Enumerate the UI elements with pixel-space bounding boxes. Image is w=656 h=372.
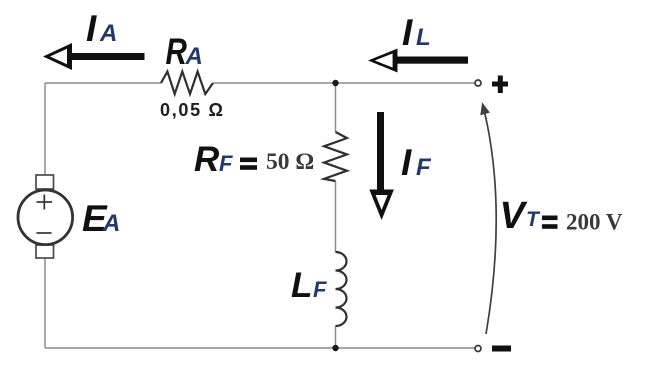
label VT = 200 V bbox=[500, 195, 623, 237]
svg-text:R: R bbox=[194, 140, 220, 179]
terminal minus sign bbox=[492, 346, 511, 352]
arrow IL bbox=[368, 49, 468, 73]
terminal top right bbox=[475, 80, 481, 86]
wire left vertical lower bbox=[44, 258, 46, 348]
svg-text:T: T bbox=[526, 208, 541, 231]
wire left vertical upper bbox=[44, 83, 46, 175]
svg-text:F: F bbox=[313, 277, 327, 302]
resistor RA label bbox=[166, 32, 203, 73]
arrow IA bbox=[43, 43, 145, 70]
svg-text:A: A bbox=[99, 20, 117, 47]
svg-text:I: I bbox=[401, 142, 412, 183]
svg-text:I: I bbox=[86, 8, 97, 49]
svg-text:R: R bbox=[166, 32, 187, 73]
wire middle vertical upper bbox=[335, 83, 337, 132]
node junction bottom bbox=[332, 345, 338, 351]
wire middle vertical lower bbox=[335, 326, 337, 348]
svg-text:L: L bbox=[291, 266, 312, 305]
svg-text:V: V bbox=[500, 195, 528, 237]
label IL bbox=[402, 12, 431, 53]
label IF bbox=[401, 142, 432, 183]
wire top horizontal left of RA bbox=[45, 82, 161, 84]
wire top horizontal right of RA bbox=[213, 82, 475, 84]
svg-text:F: F bbox=[416, 154, 432, 181]
svg-text:L: L bbox=[416, 24, 431, 51]
svg-text:I: I bbox=[402, 12, 413, 53]
inductor LF coil bbox=[336, 252, 347, 326]
resistor RF zigzag vertical bbox=[324, 132, 347, 181]
terminal plus sign bbox=[492, 76, 508, 94]
svg-text:200 V: 200 V bbox=[566, 210, 623, 235]
source EA motor symbol bbox=[18, 175, 73, 258]
label IA bbox=[86, 8, 117, 49]
svg-text:F: F bbox=[219, 151, 233, 176]
resistor RA zigzag bbox=[161, 72, 213, 95]
svg-text:A: A bbox=[102, 210, 120, 237]
wire middle vertical between RF and LF bbox=[335, 181, 337, 252]
svg-text:50 Ω: 50 Ω bbox=[266, 149, 314, 175]
resistor RF label and value bbox=[194, 140, 314, 179]
label EA bbox=[82, 198, 120, 239]
node junction top bbox=[332, 80, 338, 86]
arrow IF bbox=[369, 112, 394, 220]
inductor LF label bbox=[291, 266, 327, 305]
wire bottom horizontal bbox=[45, 347, 475, 349]
VT curved arrow bbox=[480, 102, 496, 334]
svg-text:A: A bbox=[185, 43, 203, 70]
svg-text:0,05 Ω: 0,05 Ω bbox=[160, 100, 225, 120]
terminal bottom right bbox=[475, 346, 481, 352]
